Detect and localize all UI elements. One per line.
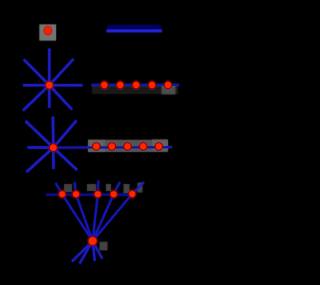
path P1 vertex 2	[117, 81, 124, 88]
tree vertex t1	[59, 191, 66, 198]
star S1 arm NE	[49, 59, 73, 85]
star S1 arm N	[48, 49, 50, 86]
path P2 vertex 1	[93, 143, 101, 151]
star S1 arm NW	[24, 60, 50, 86]
path P2 vertex 5	[155, 143, 163, 151]
star S1 arm SE	[49, 85, 72, 109]
star S2 center vertex	[49, 144, 57, 152]
hub pendant edge 2	[80, 241, 93, 264]
star S1 arm W	[23, 84, 49, 86]
gray box near t4	[124, 184, 130, 193]
edge E1 (row 1 horizontal line)	[107, 30, 162, 33]
star S1 arm E	[49, 84, 82, 86]
edge from star S2 to path P2 (row 3 spine)	[53, 146, 172, 149]
pendant stub of t4	[114, 182, 120, 194]
star S2 arm SE	[53, 148, 77, 170]
hub pendant edge 4	[93, 241, 103, 259]
hub pendant edge 1	[72, 241, 93, 262]
pendant stub of t5	[132, 182, 144, 194]
tree vertex t3	[94, 191, 101, 198]
path P2 vertex 3	[124, 143, 132, 151]
hub pendant edge 3	[93, 241, 95, 261]
gray box near t5	[138, 183, 143, 193]
path P1 vertex 5	[164, 81, 171, 88]
gray box P2 vertex5	[152, 139, 168, 151]
tree vertex t2	[72, 191, 79, 198]
star S1 center vertex	[45, 81, 53, 89]
edge t1 to hub	[62, 194, 92, 241]
star S1 arm SW	[23, 85, 49, 110]
path P2 vertex 2	[108, 143, 116, 151]
star S2 arm W	[28, 146, 54, 149]
gray box P2 vertex1	[88, 140, 105, 153]
tree vertex t4	[110, 191, 117, 198]
vertex V1 (isolated vertex, row 1)	[44, 26, 52, 35]
star S2 arm NE	[53, 121, 76, 148]
edge t4 to hub	[93, 194, 114, 241]
path P1 vertex 3	[132, 81, 139, 88]
gray box near t3	[106, 184, 111, 191]
edge t5 to hub	[93, 194, 133, 241]
edge t2 to hub	[76, 194, 93, 241]
pendant stub of t3	[97, 181, 100, 195]
path P2 vertex 4	[139, 143, 147, 151]
star S2 arm NW	[26, 121, 54, 148]
gray box between t2 and t3	[87, 184, 96, 191]
pendant stub of t2	[75, 182, 76, 194]
gray box near hub	[100, 242, 108, 251]
path P1 vertex 1	[101, 81, 108, 88]
path P1 vertex 4	[148, 81, 155, 88]
gray box at last vertex of P1	[162, 85, 176, 95]
star S2 arm SW	[27, 148, 54, 172]
edge t3 to hub	[93, 194, 98, 241]
gray band under path P1	[92, 85, 178, 94]
gray box near tree vertex t1	[64, 184, 72, 192]
star S1 arm S	[48, 85, 50, 108]
pendant stub of t1	[56, 183, 63, 194]
tree spine line (bottom path)	[46, 194, 134, 196]
gray band behind path P2	[88, 140, 168, 152]
hub vertex	[88, 237, 97, 246]
star S2 arm S	[52, 148, 55, 169]
gray halo box around vertex V1	[40, 25, 57, 41]
path P1 line (row 2)	[92, 84, 180, 86]
tree vertex t5	[129, 190, 136, 197]
star S2 arm N	[52, 117, 55, 148]
edge E1 halo (row 1 line)	[108, 25, 161, 29]
